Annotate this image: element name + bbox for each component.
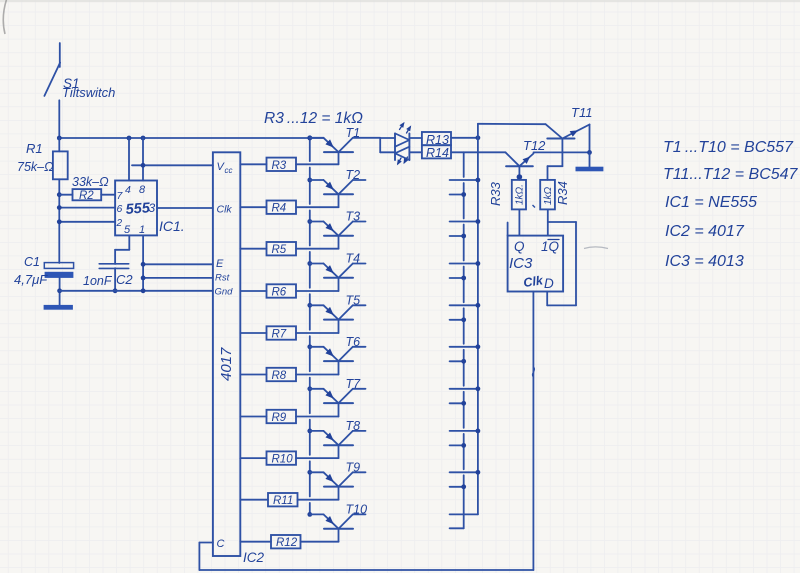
resistor R12 1kΩ [271, 535, 301, 549]
transistor T3 (BC557) [310, 222, 366, 249]
pen slip mark on IC3 clk wire [533, 367, 535, 377]
svg-text:T5: T5 [346, 293, 361, 307]
svg-text:3: 3 [149, 201, 156, 215]
IC2 pin labels Vcc Clk E Rst Gnd C [215, 161, 234, 550]
svg-text:R2: R2 [79, 190, 94, 202]
svg-text:Tiltswitch: Tiltswitch [62, 85, 115, 100]
svg-text:R12: R12 [276, 537, 298, 549]
tick to rail B row T3 [450, 219, 481, 224]
resistor R1 75kΩ [53, 138, 68, 263]
small pen mark between R33 and R34 [533, 205, 536, 208]
wire IC2 output to R10 [240, 457, 266, 459]
wire R14 output to T12 [451, 151, 505, 153]
svg-text:T11: T11 [571, 105, 592, 120]
pin 8 stub [142, 138, 144, 181]
svg-text:R10: R10 [272, 454, 294, 466]
svg-text:75k–Ω: 75k–Ω [17, 160, 54, 174]
wire: top supply bus [57, 136, 324, 141]
wire IC3 Clk down to bottom bus [532, 292, 534, 571]
switch S1 (tilt switch) [44, 43, 60, 138]
tick to rail B row T5 [450, 303, 481, 308]
svg-text:IC1.: IC1. [159, 218, 185, 234]
tick to rail A row T9 [450, 484, 467, 489]
svg-text:T1 ...T10 = BC557: T1 ...T10 = BC557 [663, 139, 794, 156]
resistor R33 1kΩ [512, 180, 526, 210]
svg-text:D: D [544, 276, 554, 291]
svg-text:IC2 = 4017: IC2 = 4017 [665, 223, 745, 240]
svg-text:1kΩ: 1kΩ [543, 186, 554, 205]
transistor T1 (BC557) [310, 138, 380, 165]
resistor R34 1kΩ [540, 180, 555, 210]
wire IC2 output to R3 [240, 163, 266, 165]
wire R10 to T8 base [296, 457, 339, 459]
rail B (right collector rail) [450, 124, 546, 515]
tick to rail A row T8 [450, 443, 467, 448]
pin 4 stub [128, 138, 130, 181]
wire E to IC2 [141, 262, 213, 267]
resistor R4 1kΩ [267, 201, 297, 215]
wire pin6 to left rail [57, 205, 115, 210]
wires LEDs to R13/R14 [409, 138, 422, 152]
resistor R14 [422, 145, 451, 160]
ground (C1) [44, 305, 73, 310]
svg-text:1Q: 1Q [541, 239, 560, 254]
tick to rail A row T5 [450, 317, 467, 322]
svg-text:555: 555 [125, 200, 151, 218]
svg-text:Q: Q [514, 239, 525, 254]
svg-text:T10: T10 [346, 502, 368, 516]
svg-text:6: 6 [117, 203, 123, 215]
wire IC2 output to R11 [240, 499, 268, 501]
svg-text:T6: T6 [346, 335, 361, 349]
op IC1 NE555 box [115, 181, 157, 236]
svg-text:R9: R9 [272, 412, 287, 424]
svg-text:R34: R34 [555, 181, 570, 205]
svg-text:R7: R7 [272, 329, 287, 341]
svg-text:C2: C2 [116, 272, 133, 287]
svg-text:Gnd: Gnd [215, 287, 234, 298]
svg-text:cc: cc [225, 166, 233, 175]
svg-text:Rst: Rst [215, 273, 230, 284]
svg-text:R33: R33 [488, 181, 503, 206]
wire IC2 output to R5 [240, 248, 266, 250]
wire IC2 C pin to bottom bus [199, 543, 213, 571]
svg-text:R11: R11 [273, 495, 293, 507]
svg-text:R3: R3 [272, 160, 287, 172]
transistor T2 (BC557) [310, 180, 366, 207]
wire IC2 output to R12 [240, 541, 271, 543]
op IC3 4013 box [508, 223, 563, 292]
transistor T9 (BC557) [310, 472, 366, 499]
wire IC2 output to R4 [240, 206, 266, 208]
svg-text:T2: T2 [346, 168, 361, 182]
svg-text:C1: C1 [24, 255, 40, 269]
wire R13 output to rail B [451, 135, 480, 140]
wire R8 to T6 base [296, 374, 339, 376]
wire Rst to IC2 [141, 276, 213, 281]
tick to rail A row T3 [450, 234, 467, 239]
svg-text:T8: T8 [346, 419, 361, 433]
IC3 pin labels Q and 1Q̄ [514, 239, 560, 254]
transistor T11 (BC547) [546, 124, 590, 166]
wire: ground bus to IC2 [60, 288, 213, 293]
transistor T6 (BC557) [310, 347, 366, 375]
wire Vcc: pin8/4 to IC2 Vcc [132, 163, 213, 168]
svg-text:C: C [217, 538, 225, 550]
wire R9 to T7 base [296, 416, 339, 418]
resistor R10 1kΩ [267, 451, 297, 465]
tick to rail B row T2 [450, 178, 481, 183]
wire: bottom bus [199, 569, 533, 571]
wire R33 to IC3 Q [518, 209, 520, 235]
svg-text:R5: R5 [272, 244, 287, 256]
svg-text:R4: R4 [272, 203, 287, 215]
tick to rail A row T2 [450, 192, 467, 197]
tick to rail B row T9 [450, 470, 481, 475]
svg-text:T11...T12 = BC547: T11...T12 = BC547 [663, 166, 799, 183]
svg-text:T7: T7 [346, 377, 362, 391]
wire: common emitter rail [307, 135, 312, 516]
resistor R8 1kΩ [267, 368, 297, 382]
ground (T11/T12) [576, 167, 604, 172]
wire R11 to T9 base [298, 499, 339, 501]
tick to rail A row T6 [450, 359, 467, 364]
wire pin2 to left rail [57, 219, 115, 224]
wire IC2 output to R9 [240, 416, 266, 418]
LED emission arrows bottom [398, 157, 408, 164]
svg-text:T4: T4 [346, 252, 361, 266]
resistor R9 1kΩ [267, 410, 297, 424]
svg-text:T3: T3 [346, 210, 361, 224]
resistor R7 1kΩ [267, 326, 297, 340]
svg-text:5: 5 [124, 224, 131, 236]
svg-text:1: 1 [139, 224, 145, 236]
tick to rail B row T7 [450, 386, 481, 391]
transistor T10 (BC557) [310, 514, 366, 541]
transistor T12 (BC547) [505, 152, 533, 180]
svg-text:2: 2 [116, 218, 123, 229]
capacitor C2 10nF [99, 264, 129, 293]
svg-text:T9: T9 [346, 460, 361, 474]
LED emission arrows top [400, 123, 411, 133]
resistor R13 [422, 132, 451, 147]
svg-text:R6: R6 [272, 287, 287, 299]
svg-text:T12: T12 [523, 138, 546, 153]
wire pin5 to C2 [115, 235, 129, 264]
tick to rail B row T8 [450, 429, 481, 434]
capacitor C1 4,7µF [44, 263, 73, 305]
svg-text:1onF: 1onF [83, 274, 113, 288]
svg-text:Clk: Clk [217, 204, 233, 216]
resistor R3 1kΩ [267, 158, 297, 172]
wire R7 to T5 base [296, 332, 339, 334]
wire R3 to T1 base [296, 163, 339, 165]
tick to rail A row T7 [450, 401, 467, 406]
svg-text:IC2: IC2 [243, 550, 265, 565]
transistor T7 (BC557) [310, 389, 366, 417]
svg-text:R14: R14 [426, 146, 449, 160]
wire R12 to T10 base [301, 541, 339, 543]
svg-text:R1: R1 [26, 141, 43, 156]
svg-text:Clk: Clk [522, 273, 544, 290]
svg-text:4: 4 [125, 184, 131, 196]
IC1 pin labels [116, 184, 147, 236]
wire IC2 output to R6 [240, 290, 266, 292]
op IC2 4017 box [213, 152, 240, 556]
resistor R5 1kΩ [267, 242, 297, 256]
tick to rail B row T4 [450, 261, 481, 266]
svg-text:4017: 4017 [218, 347, 235, 381]
wire T12/T11 emitters to ground [534, 150, 592, 167]
tick to rail B row T6 [450, 344, 481, 349]
svg-text:R3 ...12 = 1kΩ: R3 ...12 = 1kΩ [264, 110, 363, 127]
transistor T8 (BC557) [310, 431, 366, 458]
LED pair D1/D2 (anti-parallel) [395, 133, 409, 160]
wire R4 to T2 base [296, 206, 339, 208]
resistor R2 33kΩ [57, 189, 115, 202]
svg-text:1kΩ.: 1kΩ. [515, 184, 526, 205]
faint pencil dash right of IC3 [584, 247, 608, 249]
tick to rail A row T4 [450, 276, 467, 281]
resistor R6 1kΩ [267, 284, 297, 298]
svg-text:IC1 = NE555: IC1 = NE555 [665, 194, 757, 211]
svg-text:4,7μF: 4,7μF [14, 272, 48, 287]
transistor T4 (BC557) [310, 264, 366, 292]
rail A (left collector rail) [450, 152, 464, 528]
wire IC2 output to R8 [240, 374, 266, 376]
transistor T5 (BC557) [310, 305, 366, 333]
IC3 pin labels Clk and D [522, 273, 554, 291]
svg-text:8: 8 [139, 184, 146, 196]
svg-text:IC3 = 4013: IC3 = 4013 [665, 253, 744, 270]
wire IC2 output to R7 [240, 332, 266, 334]
wire R6 to T4 base [296, 290, 339, 292]
svg-text:R8: R8 [272, 370, 287, 382]
wire R5 to T3 base [296, 248, 339, 250]
wire pin1 to ground bus [142, 235, 144, 290]
svg-text:T1: T1 [346, 126, 361, 140]
svg-text:E: E [216, 258, 224, 270]
svg-text:IC3: IC3 [509, 255, 533, 272]
wire T1 collector to LEDs [380, 138, 395, 152]
svg-text:33k–Ω: 33k–Ω [72, 175, 109, 189]
wire T11 base to R34 [548, 166, 563, 180]
wire R34 to IC3 1Q̄ and D feedback loop [547, 209, 576, 305]
wire pin3 to IC2 Clk [157, 207, 213, 209]
resistor R11 1kΩ [268, 493, 298, 507]
